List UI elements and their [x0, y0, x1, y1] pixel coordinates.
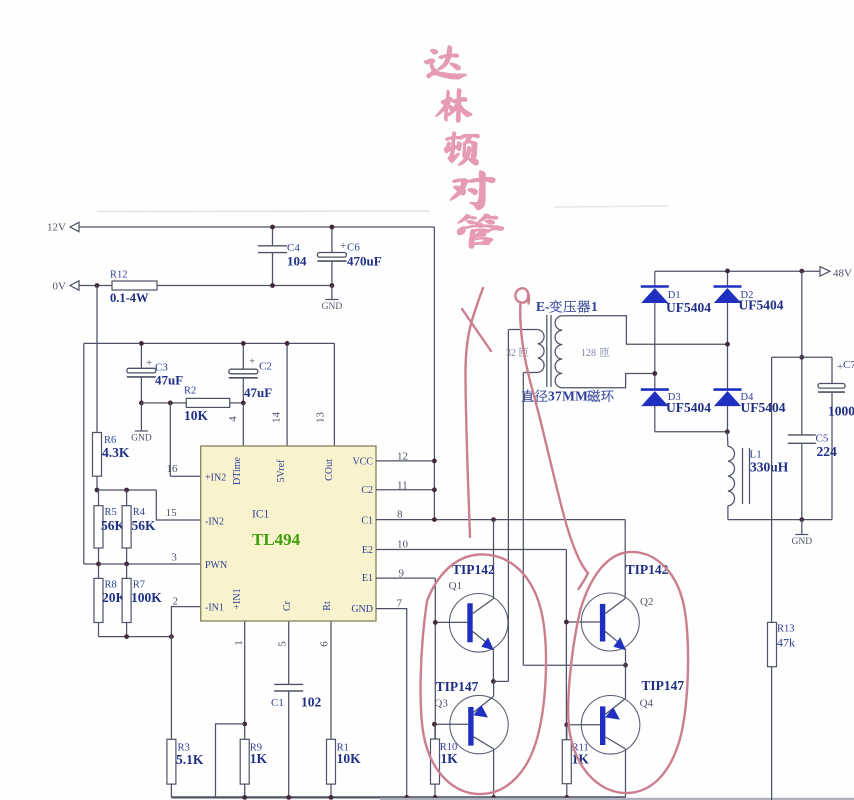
- wire bridge bottom: [655, 431, 728, 433]
- svg-text:+IN2: +IN2: [205, 473, 226, 484]
- wire C7 top bus: [772, 356, 832, 358]
- connector 48V: [820, 267, 830, 276]
- junction C4 top: [270, 225, 275, 230]
- svg-text:PWN: PWN: [205, 560, 227, 571]
- capacitor C2 47uF: [242, 343, 244, 369]
- resistor R4 56K: [126, 490, 128, 506]
- svg-text:14: 14: [271, 412, 283, 424]
- wire secondary bottom to D1/D3: [562, 374, 655, 388]
- C3 plates: [127, 368, 156, 373]
- wire Q4 emitter diag: [606, 699, 626, 715]
- inductor L1 330uH: [726, 432, 729, 447]
- svg-text:+: +: [340, 240, 346, 252]
- svg-text:UF5404: UF5404: [741, 400, 786, 415]
- wire 0V rail: [157, 285, 332, 287]
- connector 0V: [70, 281, 79, 290]
- watermark char 5: [457, 214, 503, 249]
- svg-text:10: 10: [397, 539, 409, 551]
- svg-text:E-: E-: [536, 299, 550, 314]
- junction Q1 collector: [491, 517, 496, 522]
- resistor R8 20K: [98, 564, 100, 578]
- wire pin3 PWN: [84, 563, 201, 565]
- svg-text:Rt: Rt: [322, 601, 333, 611]
- svg-text:R5: R5: [105, 507, 117, 518]
- capacitor C7 1000uF: [831, 357, 833, 383]
- svg-text:R2: R2: [184, 385, 196, 396]
- svg-text:TIP147: TIP147: [436, 679, 479, 694]
- svg-text:UF5404: UF5404: [666, 300, 711, 315]
- svg-text:TL494: TL494: [252, 530, 301, 549]
- svg-text:224: 224: [817, 444, 838, 459]
- wire Q4 collector down: [625, 749, 627, 798]
- watermark char 2: [436, 89, 472, 122]
- resistor R11 1K: [566, 725, 568, 740]
- junction bridge bottom / L1: [725, 429, 730, 434]
- junction pin1 / branch: [242, 722, 247, 727]
- svg-text:E1: E1: [362, 573, 373, 584]
- junction C1/12V: [432, 517, 437, 522]
- svg-text:32: 32: [506, 348, 516, 359]
- svg-text:+IN1: +IN1: [232, 588, 243, 609]
- diode D1 UF5404: [641, 285, 669, 288]
- junction C2: [432, 487, 437, 492]
- wire primary top column: [507, 330, 509, 682]
- resistor R5 56K: [98, 490, 100, 506]
- C6 plates: [317, 253, 346, 258]
- wire R5 R4 top bus: [97, 489, 156, 491]
- svg-text:GND: GND: [351, 604, 373, 615]
- output bottom rail: [728, 519, 832, 521]
- svg-text:C1: C1: [361, 516, 373, 527]
- svg-text:COut: COut: [324, 459, 335, 481]
- junction -IN1 column: [169, 634, 174, 639]
- junction C4 bottom: [270, 283, 275, 288]
- svg-text:R7: R7: [133, 580, 145, 591]
- svg-text:7: 7: [397, 598, 403, 610]
- transistor Q1 TIP142: [449, 594, 508, 653]
- L1 core line: [749, 448, 751, 504]
- wire D1 top: [654, 271, 656, 286]
- wire pin4 column: [242, 403, 244, 446]
- svg-text:10K: 10K: [184, 408, 209, 423]
- junction R6 bottom / R5 top: [95, 488, 100, 493]
- resistor R7 100K: [126, 564, 128, 578]
- svg-text:5.1K: 5.1K: [176, 752, 204, 767]
- capacitor C5 224: [788, 434, 816, 436]
- wire outer left bus: [83, 343, 85, 564]
- wire pin11 C2: [376, 489, 434, 491]
- svg-text:102: 102: [301, 695, 322, 710]
- resistor R9 1K: [240, 739, 249, 784]
- diode D4 UF5404: [714, 388, 742, 391]
- junction Q2 base: [564, 620, 569, 625]
- junction rail GND col: [404, 795, 409, 800]
- svg-text:R8: R8: [105, 580, 117, 591]
- svg-text:Q2: Q2: [640, 596, 653, 608]
- junction C3 bottom: [139, 401, 144, 406]
- wire 12V drop to VCC column: [433, 227, 435, 520]
- junction rail R11: [564, 795, 569, 800]
- svg-text:GND: GND: [792, 537, 813, 547]
- junction pin14 / top bus: [285, 341, 290, 346]
- svg-text:56K: 56K: [132, 518, 157, 533]
- svg-text:1000: 1000: [828, 404, 854, 419]
- bottom rail wire: [171, 796, 625, 798]
- wire pin13 column: [333, 343, 335, 446]
- svg-text:12V: 12V: [47, 222, 66, 234]
- red pen oval around Q2 Q4: [568, 552, 688, 793]
- diode D2 UF5404: [714, 285, 742, 288]
- C2 plates: [229, 369, 258, 374]
- wire branch to bottom rail: [216, 724, 245, 798]
- ground output: [795, 534, 808, 536]
- resistor R6 4.3K: [93, 433, 102, 477]
- svg-text:UF5404: UF5404: [739, 298, 784, 313]
- svg-text:330uH: 330uH: [750, 460, 789, 475]
- capacitor C3 47uF: [140, 343, 142, 368]
- wire 0V down to R6: [96, 286, 98, 433]
- wire Q2 collector column: [624, 520, 626, 599]
- transformer core: [546, 315, 548, 387]
- junction rail R1: [329, 795, 334, 800]
- watermark char 4: [450, 171, 495, 210]
- svg-text:GND: GND: [131, 434, 152, 444]
- wire 0V to R12: [79, 285, 112, 287]
- svg-text:5Vref: 5Vref: [276, 459, 287, 482]
- svg-text:-IN2: -IN2: [205, 517, 224, 528]
- svg-text:47k: 47k: [777, 636, 795, 650]
- red pen X mark: [462, 309, 491, 351]
- svg-text:470uF: 470uF: [347, 254, 382, 269]
- junction D2 top: [725, 269, 730, 274]
- wire D2-D4: [727, 303, 729, 390]
- wire pin2 -IN1 down to R3: [171, 607, 200, 740]
- wire secondary top to D2/D4: [562, 316, 727, 344]
- svg-text:48V: 48V: [833, 268, 852, 280]
- svg-text:R4: R4: [133, 507, 146, 518]
- svg-text:C6: C6: [347, 242, 360, 254]
- wire D4 bottom: [727, 406, 729, 432]
- svg-text:1: 1: [591, 299, 598, 314]
- wire pin1 column: [244, 621, 246, 739]
- svg-text:C1: C1: [271, 697, 284, 709]
- junction rail R10: [433, 795, 438, 800]
- wire Q1 emitter diag: [473, 632, 493, 648]
- resistor R10 1K: [434, 724, 436, 739]
- svg-text:Cr: Cr: [282, 600, 293, 611]
- junction output column: [799, 269, 804, 274]
- svg-text:DTime: DTime: [232, 456, 243, 485]
- wire E2 base column: [565, 550, 567, 740]
- svg-text:6: 6: [319, 641, 331, 647]
- wire Q1 collector column: [493, 520, 495, 599]
- wire Q1 emitter down: [492, 649, 494, 682]
- wire Q2 collector diag: [605, 599, 625, 614]
- junction rail C1: [286, 795, 291, 800]
- svg-text:16: 16: [167, 463, 179, 475]
- output top rail: [655, 270, 820, 272]
- wire Q3 collector diag: [474, 737, 494, 749]
- svg-text:1K: 1K: [250, 751, 268, 766]
- wire D2 top: [727, 271, 729, 287]
- resistor R2 10K: [141, 402, 186, 404]
- svg-text:TIP142: TIP142: [452, 562, 495, 577]
- resistor R13 47k: [768, 622, 777, 666]
- junction C3 top: [139, 341, 144, 346]
- wire to primary bottom: [523, 664, 625, 666]
- wire to +IN2: [170, 475, 200, 477]
- wire top bus Vref: [84, 342, 335, 344]
- svg-text:4.3K: 4.3K: [102, 445, 130, 460]
- transistor Q2 TIP142: [581, 593, 639, 651]
- junction GND: [799, 517, 804, 522]
- junction Q1/Q3 emitters: [491, 679, 496, 684]
- junction Q4 base / R11: [564, 722, 569, 727]
- watermark char 3: [444, 132, 479, 165]
- transformer secondary winding: [555, 316, 562, 388]
- wire R8 R7 bottom bus: [99, 636, 172, 638]
- svg-text:0V: 0V: [53, 281, 67, 293]
- svg-text:C7: C7: [843, 359, 854, 371]
- svg-text:2: 2: [173, 596, 179, 608]
- wire D3 bottom: [654, 406, 656, 432]
- resistor R12: [112, 281, 157, 290]
- capacitor C6 470uF: [331, 227, 333, 253]
- ground under C3: [135, 430, 148, 432]
- wire to ground: [331, 286, 333, 300]
- junction C2 bottom / R2 / pin4: [241, 401, 246, 406]
- svg-text:C5: C5: [816, 433, 829, 445]
- junction R5/R8: [96, 562, 101, 567]
- diode D3 UF5404: [641, 388, 669, 391]
- svg-text:10K: 10K: [337, 751, 362, 766]
- svg-text:104: 104: [287, 254, 307, 269]
- junction R7 bottom: [124, 634, 129, 639]
- junction R4/R7: [124, 562, 129, 567]
- wire to ground: [801, 520, 803, 535]
- svg-text:3: 3: [171, 552, 177, 564]
- wire pin10 E2: [376, 549, 566, 551]
- wire pin16 column: [169, 403, 171, 476]
- svg-text:47uF: 47uF: [244, 385, 272, 400]
- junction Q2/Q4 emitters: [623, 663, 628, 668]
- svg-text:Q1: Q1: [449, 580, 462, 592]
- junction C6 top: [330, 225, 335, 230]
- junction rail R9: [242, 795, 247, 800]
- red pen oval around Q1 Q3: [421, 554, 546, 794]
- junction rail Q3: [491, 795, 496, 800]
- wire to -IN2 pin15: [156, 490, 200, 520]
- svg-text:-IN1: -IN1: [205, 603, 224, 614]
- svg-text:128: 128: [581, 348, 596, 359]
- wire output column: [801, 271, 803, 435]
- wire Q2 emitter down: [625, 649, 627, 666]
- junction pin16 column: [168, 401, 173, 406]
- svg-text:+: +: [249, 356, 255, 368]
- wire pin14 column: [286, 343, 288, 446]
- svg-text:UF5404: UF5404: [666, 400, 711, 415]
- wire Q2 emitter diag: [605, 632, 624, 648]
- junction Q3 base / R10: [432, 722, 437, 727]
- bottom edge artifact: [380, 798, 854, 800]
- wire to primary left: [493, 680, 508, 682]
- junction C2 top: [241, 341, 246, 346]
- junction VCC: [432, 459, 437, 464]
- op-amp IC U1 TL494 box: [201, 446, 376, 621]
- wire Q4 emitter column: [625, 665, 627, 698]
- svg-text:R12: R12: [110, 270, 128, 281]
- resistor R1 10K: [327, 739, 336, 784]
- svg-text:E2: E2: [362, 545, 373, 556]
- wire R13 column top: [771, 357, 773, 622]
- svg-text:15: 15: [166, 507, 178, 519]
- wire Q4 collector diag: [606, 737, 626, 749]
- svg-text:4: 4: [227, 416, 239, 422]
- junction secondary top: [725, 342, 730, 347]
- svg-text:0.1-4W: 0.1-4W: [110, 291, 149, 305]
- svg-text:Q3: Q3: [434, 698, 448, 710]
- wire primary bottom column: [522, 373, 524, 666]
- junction Q1 base: [433, 620, 438, 625]
- wire Q3 emitter column: [493, 681, 495, 696]
- ground under C6: [325, 299, 338, 301]
- wire 12V rail: [79, 226, 434, 228]
- red pen loop stroke right: [515, 288, 588, 589]
- svg-text:1K: 1K: [441, 751, 459, 766]
- svg-text:1: 1: [233, 640, 245, 646]
- red pen long stroke left: [466, 288, 484, 537]
- wire R13 to bottom edge: [771, 667, 773, 800]
- wire to ground: [140, 403, 142, 431]
- svg-text:47uF: 47uF: [155, 373, 183, 388]
- svg-text:VCC: VCC: [352, 457, 373, 468]
- label core note: [522, 390, 534, 402]
- transistor Q3 TIP147: [450, 695, 508, 753]
- svg-text:C2: C2: [361, 485, 373, 496]
- svg-text:C4: C4: [287, 242, 300, 254]
- wire pin6 column: [330, 621, 332, 739]
- wire pin7 GND column: [376, 609, 407, 798]
- wire pin12 VCC: [376, 460, 434, 462]
- wire Q3 collector down: [493, 749, 495, 798]
- svg-text:5: 5: [277, 641, 289, 647]
- svg-text:37MM: 37MM: [548, 389, 588, 404]
- svg-text:GND: GND: [322, 302, 343, 312]
- wire Q3 emitter diag: [474, 696, 494, 712]
- svg-text:Q4: Q4: [640, 698, 654, 710]
- wire pin9 E1: [376, 577, 435, 579]
- svg-text:100K: 100K: [131, 590, 162, 605]
- wire Q1 collector diag: [473, 599, 494, 614]
- junction 0V / R6 column: [95, 283, 100, 288]
- scan artifact faint line: [97, 210, 430, 213]
- wire D1-D3: [654, 303, 656, 390]
- svg-text:C2: C2: [259, 361, 272, 373]
- resistor R3 5.1K: [167, 739, 176, 784]
- svg-text:+: +: [146, 357, 152, 369]
- transistor Q4 TIP147: [581, 696, 640, 755]
- svg-text:13: 13: [314, 412, 326, 424]
- wire pin8 C1: [376, 519, 625, 521]
- wire E1 base column: [434, 578, 436, 739]
- svg-text:R13: R13: [777, 624, 795, 635]
- svg-text:8: 8: [397, 509, 403, 521]
- junction secondary bottom: [652, 371, 657, 376]
- junction R4 top: [124, 488, 129, 493]
- watermark char 1: [424, 46, 466, 79]
- connector 12V: [70, 222, 79, 231]
- capacitor C1 102: [288, 621, 290, 684]
- junction C6 bottom: [330, 283, 335, 288]
- svg-text:IC1: IC1: [252, 509, 270, 521]
- junction C7 bus: [799, 355, 804, 360]
- L1 core line: [742, 448, 744, 504]
- capacitor C4: [272, 227, 274, 246]
- svg-text:TIP147: TIP147: [641, 678, 684, 693]
- transformer primary winding: [508, 329, 537, 331]
